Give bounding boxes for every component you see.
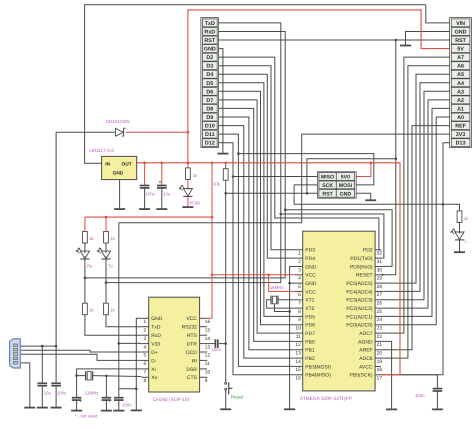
svg-text:MOSI: MOSI	[339, 183, 353, 189]
svg-text:1: 1	[298, 251, 301, 257]
svg-text:100n: 100n	[212, 347, 222, 352]
svg-text:D4: D4	[206, 72, 213, 78]
svg-text:100n: 100n	[145, 191, 155, 196]
svg-text:21: 21	[377, 342, 383, 348]
svg-text:GND: GND	[204, 47, 216, 53]
svg-text:ATMEGA 328P-32TQFP: ATMEGA 328P-32TQFP	[300, 396, 352, 402]
svg-text:D7: D7	[206, 98, 213, 104]
svg-text:VCC: VCC	[305, 273, 316, 279]
svg-text:DTR: DTR	[187, 342, 198, 348]
svg-text:18: 18	[377, 367, 383, 373]
svg-text:4: 4	[298, 276, 301, 282]
svg-text:GND: GND	[305, 264, 317, 270]
svg-text:D13: D13	[456, 141, 466, 147]
svg-text:D10: D10	[205, 124, 215, 130]
svg-text:SCK: SCK	[322, 183, 333, 189]
svg-text:25: 25	[377, 309, 383, 315]
svg-text:24: 24	[377, 317, 383, 323]
svg-text:TxD: TxD	[205, 21, 215, 27]
svg-text:VCC: VCC	[186, 316, 197, 322]
svg-text:15: 15	[205, 327, 211, 333]
svg-text:PB0: PB0	[305, 339, 315, 345]
svg-text:XT1: XT1	[305, 298, 314, 304]
svg-text:TxD: TxD	[151, 325, 161, 331]
svg-text:PB5(SCK): PB5(SCK)	[350, 373, 373, 379]
svg-text:GND: GND	[340, 191, 352, 197]
svg-text:PC5(ADC5): PC5(ADC5)	[346, 281, 373, 287]
svg-text:VIN: VIN	[456, 21, 465, 27]
svg-text:31: 31	[377, 259, 383, 265]
svg-text:3V3: 3V3	[456, 132, 466, 138]
svg-text:6: 6	[298, 292, 301, 298]
svg-text:PC2(ADC2): PC2(ADC2)	[346, 306, 373, 312]
svg-text:3: 3	[298, 267, 301, 273]
svg-text:23: 23	[377, 326, 383, 332]
svg-text:22: 22	[377, 334, 383, 340]
svg-text:* - not used: * - not used	[75, 413, 98, 418]
svg-text:AREF: AREF	[359, 348, 372, 354]
svg-text:IN: IN	[105, 162, 110, 168]
svg-text:OUT: OUT	[122, 162, 132, 168]
svg-text:5: 5	[144, 353, 147, 359]
svg-text:32: 32	[377, 251, 383, 257]
svg-text:10u: 10u	[44, 391, 52, 396]
svg-text:PD0(RxD): PD0(RxD)	[350, 264, 373, 270]
svg-text:DSR: DSR	[186, 367, 197, 373]
svg-text:10: 10	[295, 326, 301, 332]
svg-text:8: 8	[144, 378, 147, 384]
svg-text:9: 9	[205, 378, 208, 384]
svg-text:2: 2	[298, 259, 301, 265]
svg-text:8: 8	[298, 309, 301, 315]
svg-text:16MHz: 16MHz	[270, 285, 284, 290]
svg-text:Tx: Tx	[108, 264, 114, 269]
svg-text:29: 29	[377, 276, 383, 282]
svg-text:7: 7	[298, 301, 301, 307]
svg-text:A3: A3	[457, 89, 464, 95]
svg-text:5V0: 5V0	[341, 175, 350, 181]
svg-text:D5: D5	[206, 81, 213, 87]
svg-text:CTS: CTS	[187, 375, 198, 381]
svg-text:PD2: PD2	[363, 248, 373, 254]
svg-text:4: 4	[144, 344, 147, 350]
svg-text:RxD: RxD	[151, 333, 161, 339]
svg-text:CH340 (SOP-16): CH340 (SOP-16)	[153, 397, 190, 403]
svg-text:10: 10	[205, 370, 211, 376]
svg-text:GND: GND	[151, 316, 163, 322]
svg-text:PD4: PD4	[305, 256, 315, 262]
svg-text:100n: 100n	[415, 393, 425, 398]
svg-text:26: 26	[377, 301, 383, 307]
svg-text:16: 16	[205, 319, 211, 325]
svg-text:PD3: PD3	[305, 248, 315, 254]
svg-text:D2: D2	[206, 55, 213, 61]
svg-text:POW: POW	[189, 201, 200, 206]
svg-text:*: *	[80, 400, 82, 405]
svg-text:AVCC: AVCC	[359, 364, 373, 370]
svg-text:PC1(ADC1): PC1(ADC1)	[346, 314, 373, 320]
svg-text:GND: GND	[305, 281, 317, 287]
svg-text:RST: RST	[204, 38, 215, 44]
svg-text:Xi: Xi	[151, 367, 155, 373]
svg-text:Xo: Xo	[151, 375, 157, 381]
svg-text:14: 14	[205, 336, 211, 342]
svg-text:A7: A7	[457, 55, 464, 61]
svg-text:5V: 5V	[457, 47, 464, 53]
svg-text:11: 11	[296, 334, 301, 340]
svg-text:REF: REF	[455, 124, 466, 130]
svg-text:DCD: DCD	[186, 350, 197, 356]
svg-text:A0: A0	[457, 115, 464, 121]
svg-text:XT2: XT2	[305, 306, 314, 312]
svg-text:RTS: RTS	[187, 333, 198, 339]
svg-text:GND: GND	[113, 171, 124, 177]
svg-text:LM1117-5.0: LM1117-5.0	[89, 148, 114, 154]
svg-text:1: 1	[144, 319, 147, 325]
svg-text:15: 15	[295, 367, 301, 373]
svg-text:12MHz: 12MHz	[85, 390, 99, 395]
svg-text:100n: 100n	[57, 391, 67, 396]
svg-text:30: 30	[377, 267, 383, 273]
svg-text:RI: RI	[192, 358, 197, 364]
svg-text:12: 12	[205, 353, 211, 359]
svg-text:PC4(ADC4): PC4(ADC4)	[346, 289, 373, 295]
svg-text:28: 28	[377, 284, 383, 290]
svg-text:10u: 10u	[163, 191, 171, 196]
svg-text:VCC: VCC	[305, 289, 316, 295]
svg-text:RST: RST	[322, 191, 333, 197]
svg-text:PD5: PD5	[305, 314, 315, 320]
svg-text:RxD: RxD	[204, 30, 215, 36]
svg-text:6: 6	[144, 361, 147, 367]
svg-text:PB4(MISO): PB4(MISO)	[305, 373, 331, 379]
svg-text:D9: D9	[206, 115, 213, 121]
svg-text:27: 27	[377, 292, 383, 298]
svg-text:A1: A1	[457, 106, 464, 112]
svg-text:AGND: AGND	[358, 339, 373, 345]
svg-text:D+: D+	[151, 350, 158, 356]
svg-text:D12: D12	[205, 141, 215, 147]
svg-text:A2: A2	[457, 98, 464, 104]
svg-text:14: 14	[295, 359, 301, 365]
svg-text:RS232: RS232	[182, 325, 198, 331]
svg-text:3: 3	[144, 336, 147, 342]
svg-text:PD7: PD7	[305, 331, 315, 337]
svg-text:A6: A6	[457, 64, 464, 70]
svg-text:GND: GND	[455, 30, 467, 36]
svg-text:D11: D11	[205, 132, 215, 138]
svg-text:MISO: MISO	[321, 175, 334, 181]
svg-text:D3: D3	[206, 64, 213, 70]
svg-text:5: 5	[298, 284, 301, 290]
svg-text:PC0(ADC0): PC0(ADC0)	[346, 323, 373, 329]
svg-text:V33: V33	[151, 342, 160, 348]
svg-text:D-: D-	[151, 358, 157, 364]
svg-text:20: 20	[377, 351, 383, 357]
svg-text:13: 13	[205, 344, 211, 350]
svg-text:*: *	[109, 400, 111, 405]
svg-text:RST: RST	[455, 38, 466, 44]
svg-text:17: 17	[377, 376, 383, 382]
svg-text:Reset: Reset	[231, 395, 244, 400]
svg-text:ADC7: ADC7	[359, 331, 373, 337]
svg-text:13: 13	[295, 351, 301, 357]
svg-text:19: 19	[377, 359, 383, 365]
svg-text:7: 7	[144, 370, 147, 376]
svg-text:11: 11	[205, 361, 210, 367]
svg-text:16: 16	[295, 376, 301, 382]
svg-text:SD101CWS: SD101CWS	[106, 119, 130, 124]
svg-text:PD1(TxD): PD1(TxD)	[350, 256, 373, 262]
svg-text:PB3(MOSI): PB3(MOSI)	[305, 364, 331, 370]
svg-text:PB1: PB1	[305, 348, 315, 354]
svg-text:RESET: RESET	[356, 273, 373, 279]
svg-text:PD6: PD6	[305, 323, 315, 329]
svg-text:12: 12	[295, 342, 301, 348]
svg-text:10k: 10k	[213, 181, 221, 186]
svg-text:9: 9	[298, 317, 301, 323]
svg-text:PC3(ADC3): PC3(ADC3)	[346, 298, 373, 304]
svg-text:PB2: PB2	[305, 356, 315, 362]
svg-text:A4: A4	[457, 81, 464, 87]
svg-text:100n: 100n	[122, 402, 132, 407]
svg-text:ADC6: ADC6	[359, 356, 373, 362]
svg-text:2: 2	[144, 327, 147, 333]
svg-text:D8: D8	[206, 106, 213, 112]
svg-text:A5: A5	[457, 72, 464, 78]
svg-text:Rx: Rx	[87, 264, 93, 269]
svg-text:D6: D6	[206, 89, 213, 95]
